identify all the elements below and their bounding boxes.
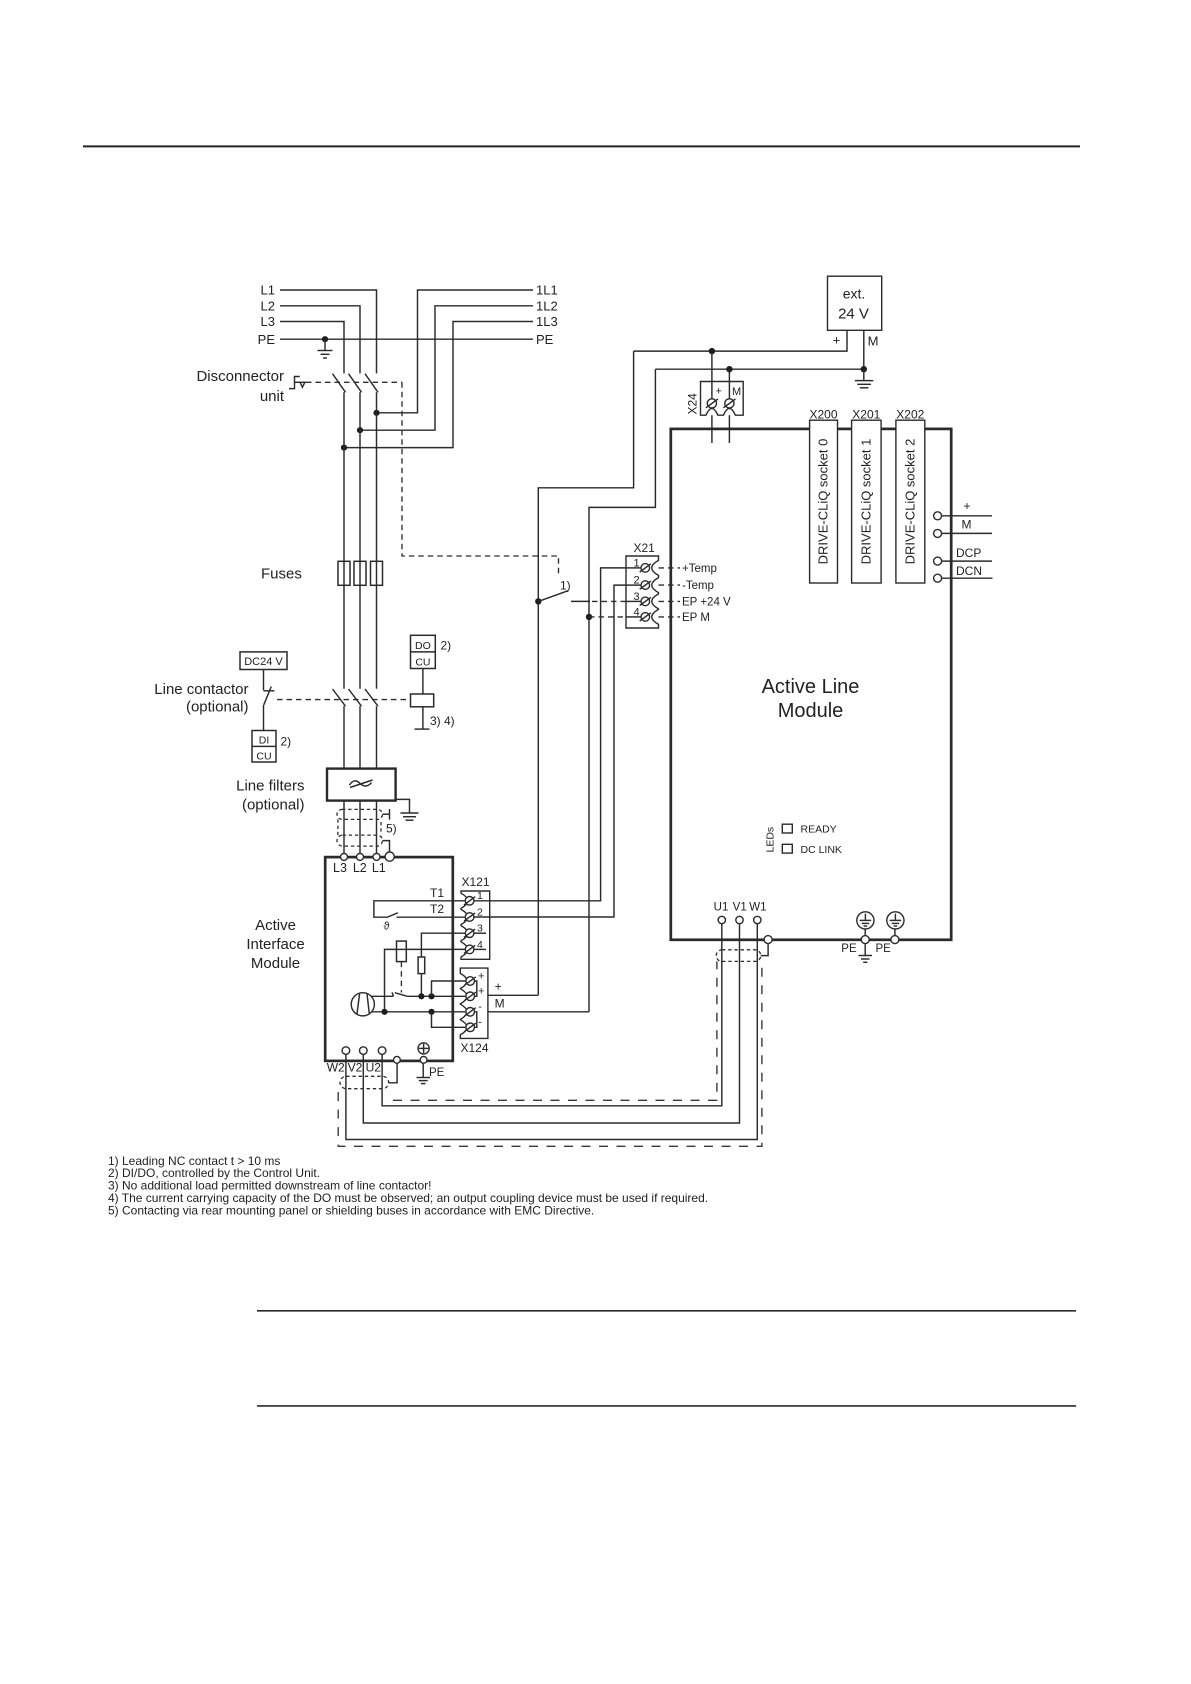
svg-text:T1: T1 — [430, 886, 444, 900]
connector X124 — [460, 968, 488, 1038]
terminal U2 — [378, 1047, 386, 1061]
X124 pin 4 — [465, 1017, 483, 1032]
wire filter to ground — [396, 799, 410, 812]
LED DC LINK — [782, 844, 842, 856]
contactor K1 pole L2 — [349, 689, 362, 706]
svg-text:4: 4 — [633, 606, 639, 618]
svg-text:Fuses: Fuses — [261, 565, 302, 582]
cable shield sleeve lower — [337, 835, 383, 846]
node ext24 M ground — [861, 366, 867, 372]
svg-text:ext.: ext. — [843, 286, 866, 302]
ground ALM PE — [859, 944, 873, 963]
svg-text:unit: unit — [260, 388, 285, 405]
svg-text:2): 2) — [281, 735, 292, 749]
wire L1 filter to module — [376, 801, 378, 854]
wire coil return — [422, 707, 424, 729]
wire +Temp (dashed) — [659, 567, 681, 569]
svg-text:EP +24 V: EP +24 V — [682, 596, 731, 608]
wire fan plus — [371, 995, 393, 997]
svg-text:U2: U2 — [366, 1061, 382, 1075]
wire L2 — [280, 306, 360, 374]
wire -Temp (dashed) — [659, 584, 681, 586]
node PE junction — [322, 336, 328, 342]
labels L3 L2 L1 — [333, 861, 386, 875]
svg-text:2: 2 — [633, 575, 639, 587]
svg-text:X200: X200 — [809, 407, 837, 421]
X121 pin1 stub — [474, 900, 490, 902]
svg-text:X121: X121 — [462, 875, 490, 889]
svg-text:DRIVE-CLiQ socket 0: DRIVE-CLiQ socket 0 — [816, 439, 831, 565]
wire L3 contactor to filter — [343, 706, 345, 768]
linkage disconnector (dashed) — [306, 381, 402, 383]
terminal W2 — [342, 1047, 350, 1061]
relay coil fan — [397, 941, 407, 962]
svg-text:(optional): (optional) — [242, 796, 305, 813]
X121 pin2 stub — [474, 916, 490, 918]
connector X21 — [626, 556, 659, 628]
X121 pin 2 — [464, 906, 483, 921]
fuse element lines — [344, 561, 377, 585]
terminal L2 top — [357, 853, 364, 860]
svg-text:+: + — [963, 499, 970, 513]
svg-text:+: + — [495, 979, 502, 993]
wire EPM to X21-4 (dashed) — [589, 616, 626, 618]
jumper X124 3-4 — [432, 1012, 467, 1028]
connector X24 — [701, 382, 744, 416]
svg-text:+: + — [478, 970, 484, 982]
module Active Interface Module box — [325, 857, 453, 1061]
svg-text:U1: U1 — [714, 902, 729, 914]
svg-text:3) 4): 3) 4) — [430, 714, 455, 728]
bottom rule 2 — [257, 1405, 1076, 1407]
box DC24V — [240, 652, 287, 670]
wire shield sleeve to AIM terminal — [389, 1063, 397, 1083]
socket X200 — [809, 407, 837, 583]
jumper X124 1-2 — [432, 981, 467, 996]
wire PE — [280, 338, 533, 340]
svg-text:L1: L1 — [261, 283, 275, 298]
linkage to switch 1) (dashed) — [402, 382, 559, 576]
svg-text:Disconnector: Disconnector — [196, 368, 284, 385]
node 1L1 junction — [373, 410, 379, 416]
X124 jumper bar 3-4 — [475, 1012, 477, 1028]
wire ext24 plus — [634, 330, 847, 351]
svg-text:READY: READY — [801, 824, 837, 836]
wire X124 plus external — [488, 994, 538, 996]
node X24 M tap — [726, 366, 732, 372]
wire contact to DI box — [263, 705, 265, 731]
node EP M tap — [586, 614, 592, 620]
contactor K1 pole L1 — [365, 689, 378, 706]
svg-text:X21: X21 — [634, 541, 656, 555]
shield boundary inner (dashed) — [393, 961, 717, 1100]
bottom rule 1 — [257, 1310, 1076, 1312]
X124 jumper bar 1-2 — [475, 981, 477, 996]
PE screw symbol — [418, 1043, 429, 1054]
svg-text:+: + — [478, 986, 484, 998]
svg-text:W2: W2 — [327, 1061, 345, 1075]
wire 1L1 — [377, 290, 534, 413]
svg-text:24 V: 24 V — [838, 305, 869, 322]
module Active Line Module box — [671, 429, 951, 940]
switch EP (1) — [535, 591, 568, 605]
terminal tick coil return — [415, 728, 430, 730]
svg-text:5) Contacting via rear mountin: 5) Contacting via rear mounting panel or… — [108, 1203, 594, 1217]
X121 pin 3 — [464, 923, 483, 938]
X124 pin 3 — [465, 1001, 483, 1016]
terminal W1 — [754, 916, 761, 938]
node fan feed — [418, 993, 424, 999]
node fan minus — [381, 1009, 387, 1015]
fuse F2 — [354, 561, 366, 585]
X121 pin3 stub — [474, 932, 486, 934]
fan contact blade — [392, 992, 407, 996]
ground line filter — [401, 813, 419, 820]
svg-text:PE: PE — [841, 943, 857, 955]
svg-text:-Temp: -Temp — [682, 580, 714, 592]
X24 stubs into module — [712, 415, 730, 443]
svg-text:X124: X124 — [461, 1041, 489, 1055]
wire shield to terminal — [383, 841, 390, 853]
X124 pin 1 — [465, 970, 485, 985]
svg-text:CU: CU — [256, 750, 271, 762]
svg-text:DI: DI — [259, 734, 270, 746]
wire X24 plus lead — [711, 351, 713, 381]
wire L1 contactor to filter — [376, 706, 378, 768]
X21 pin 4 — [633, 606, 650, 621]
svg-text:3: 3 — [633, 591, 639, 603]
coil wire through — [397, 948, 407, 950]
wire resistor to fan node — [420, 974, 422, 997]
svg-text:M: M — [868, 334, 879, 349]
wire M rail down — [589, 369, 655, 1012]
terminal V1 — [736, 916, 743, 938]
svg-text:M: M — [732, 386, 741, 398]
svg-text:L3: L3 — [261, 314, 275, 329]
svg-text:Module: Module — [251, 955, 300, 972]
switch Q1 pole L3 — [333, 374, 346, 393]
svg-text:X24: X24 — [686, 393, 700, 415]
wire EP +24 V (dashed) — [659, 600, 681, 602]
svg-text:1L3: 1L3 — [536, 314, 558, 329]
wire X121-4 through coil — [385, 949, 466, 1011]
terminal 24V plus right — [934, 499, 992, 520]
terminal L3 top — [341, 853, 348, 860]
fuse F1 — [338, 561, 350, 585]
terminal 24V M right — [934, 518, 992, 538]
X121 pin 4 — [464, 939, 483, 954]
contactor K1 pole L3 — [333, 689, 346, 706]
wire fan minus — [371, 1011, 466, 1013]
svg-text:L2: L2 — [261, 298, 275, 313]
svg-text:Active Line: Active Line — [762, 676, 860, 698]
svg-text:1L2: 1L2 — [536, 298, 558, 313]
terminal PE bottom — [420, 1056, 427, 1063]
svg-text:X201: X201 — [852, 407, 880, 421]
svg-text:V1: V1 — [733, 902, 747, 914]
node X124 plus jumper — [428, 993, 434, 999]
terminal L1 top — [373, 853, 380, 860]
wire 1L2 — [360, 306, 533, 430]
X21 wire pin2 internal — [626, 584, 641, 586]
svg-text:1: 1 — [633, 557, 639, 569]
terminal PE2 edge — [891, 936, 899, 944]
wire V2 to V1 — [363, 939, 739, 1124]
socket X202 — [896, 407, 925, 583]
svg-text:PE: PE — [258, 332, 276, 347]
wire 1L3 — [344, 322, 533, 448]
svg-text:Interface: Interface — [246, 936, 304, 953]
svg-text:-: - — [478, 1017, 482, 1029]
svg-text:Line filters: Line filters — [236, 778, 304, 795]
box ext 24 V — [828, 276, 882, 330]
node X124 minus jumper — [428, 1009, 434, 1015]
wire W2 to W1 — [346, 939, 757, 1140]
svg-text:DO: DO — [415, 640, 431, 652]
stub PE1 — [864, 929, 866, 936]
svg-text:Module: Module — [778, 700, 844, 722]
X24 pin plus — [706, 386, 722, 408]
terminal U1 — [718, 916, 725, 938]
wire DO to coil — [422, 669, 424, 695]
svg-text:X202: X202 — [896, 407, 924, 421]
svg-text:PE: PE — [876, 943, 892, 955]
svg-text:CU: CU — [415, 656, 430, 668]
wire L2 to fuses — [359, 392, 361, 688]
thermal contact blade — [387, 913, 398, 918]
fan motor M1 — [351, 993, 374, 1016]
terminal shield ALM edge — [764, 936, 772, 944]
terminal DCP — [934, 546, 992, 565]
coil K1 — [411, 694, 434, 707]
wire EP24 to X21-3 (dashed) — [571, 600, 590, 602]
shield boundary outer (dashed) — [338, 961, 762, 1146]
wire plus rail down — [538, 351, 633, 995]
svg-text:DRIVE-CLiQ socket 1: DRIVE-CLiQ socket 1 — [858, 439, 873, 565]
X21 wire pin1 internal — [626, 567, 641, 569]
X24 pin M — [723, 386, 741, 408]
switch Q1 pole L1 — [365, 374, 378, 393]
labels W2 V2 U2 — [327, 1061, 382, 1075]
wire U2 to U1 — [382, 939, 722, 1106]
wire X121-2 to X21-2 — [490, 585, 626, 917]
socket X201 — [852, 407, 882, 583]
X21 pin 3 — [633, 591, 650, 606]
X121 pin4 stub — [474, 948, 486, 950]
labels U1 V1 W1 — [714, 902, 767, 914]
LED READY — [782, 824, 836, 836]
svg-text:(optional): (optional) — [186, 699, 249, 716]
ground PE — [318, 339, 333, 358]
wire X124 M external — [488, 1011, 589, 1013]
shield link dashes right — [380, 822, 382, 833]
wire L3 to fuses — [343, 392, 345, 688]
terminal V2 — [360, 1047, 368, 1061]
svg-text:LEDs: LEDs — [765, 827, 777, 853]
terminal PE1 edge — [861, 936, 869, 944]
header rule — [83, 145, 1080, 147]
connector X121 — [461, 891, 490, 959]
wire fan contact to X124 — [407, 995, 466, 997]
terminal shield top — [385, 852, 394, 861]
wire X121-1 to X21-1 — [490, 568, 626, 901]
terminal DCN — [934, 564, 993, 582]
svg-text:DCP: DCP — [956, 546, 981, 560]
svg-text:PE: PE — [429, 1067, 445, 1079]
earth symbol PE1 — [857, 912, 874, 929]
wire L1 to fuses — [376, 392, 378, 688]
svg-text:L1: L1 — [372, 861, 386, 875]
shield link dashes left — [337, 819, 339, 835]
actuator symbol Fv — [289, 377, 306, 389]
svg-text:L2: L2 — [353, 861, 367, 875]
X21 wire pin4 internal — [626, 616, 641, 618]
svg-text:M: M — [495, 997, 505, 1011]
svg-text:+: + — [833, 333, 841, 348]
svg-text:1L1: 1L1 — [536, 283, 558, 298]
ground AIM PE — [417, 1063, 431, 1083]
ground ext24 M — [855, 369, 873, 388]
svg-text:M: M — [962, 518, 972, 532]
svg-text:Active: Active — [255, 917, 296, 934]
X21 wire pin3 internal — [626, 600, 641, 602]
shield bus tick — [383, 809, 390, 820]
wire ext24 M — [655, 330, 863, 369]
wire shield sleeve to ALM terminal — [761, 944, 768, 956]
svg-text:+: + — [715, 386, 721, 398]
svg-text:W1: W1 — [749, 902, 766, 914]
box DO/CU — [411, 635, 436, 668]
filter symbol — [350, 780, 373, 788]
svg-text:DC LINK: DC LINK — [801, 844, 842, 856]
box DI/CU — [252, 731, 276, 763]
node X24 plus tap — [709, 348, 715, 354]
svg-text:+Temp: +Temp — [682, 563, 717, 575]
svg-text:V2: V2 — [348, 1061, 363, 1075]
cable shield sleeve ALM input — [716, 950, 761, 962]
wire DC24V to DI contact — [263, 670, 265, 691]
earth symbol PE2 — [887, 912, 904, 929]
wire EP M (dashed) — [659, 616, 681, 618]
svg-text:Line contactor: Line contactor — [154, 681, 248, 698]
svg-text:T2: T2 — [430, 902, 444, 916]
svg-text:ϑ: ϑ — [384, 921, 390, 933]
svg-text:-: - — [478, 1001, 482, 1013]
contact DI (auxiliary) — [264, 687, 275, 705]
svg-text:DRIVE-CLiQ socket 2: DRIVE-CLiQ socket 2 — [902, 439, 917, 565]
box line filter — [327, 769, 396, 801]
switch Q1 pole L2 — [349, 374, 362, 393]
fuse F3 — [371, 561, 383, 585]
cable shield sleeve AIM output — [340, 1076, 389, 1088]
resistor fan — [418, 957, 425, 974]
svg-text:5): 5) — [386, 821, 397, 835]
wire X24 M lead — [728, 369, 730, 381]
node 1L2 junction — [357, 427, 363, 433]
stub PE2 — [894, 929, 896, 936]
terminal shield bottom — [394, 1056, 401, 1063]
wire L1 — [280, 290, 377, 373]
svg-text:2): 2) — [441, 638, 452, 652]
svg-text:PE: PE — [536, 332, 554, 347]
wire T2 — [397, 916, 466, 918]
linkage contactor (dashed) — [277, 699, 411, 701]
wire L3 — [280, 322, 344, 374]
svg-text:L3: L3 — [333, 861, 347, 875]
svg-text:DC24 V: DC24 V — [244, 656, 283, 668]
X21 pin 1 — [633, 557, 650, 572]
wire L3 filter to module — [343, 801, 345, 854]
wire X121-3 fan feed — [421, 933, 465, 957]
wire L2 filter to module — [359, 801, 361, 854]
wire T1 — [374, 901, 466, 917]
X21 pin 2 — [633, 575, 650, 590]
X121 pin 1 — [464, 890, 483, 905]
node 1L3 junction — [341, 445, 347, 451]
svg-text:1): 1) — [560, 579, 571, 593]
cable shield sleeve upper — [337, 809, 383, 819]
svg-text:DCN: DCN — [956, 564, 982, 578]
wire L2 contactor to filter — [359, 706, 361, 768]
svg-text:EP M: EP M — [682, 612, 710, 624]
footnotes — [108, 1154, 708, 1218]
X124 pin 2 — [465, 986, 485, 1001]
X24 internal leads — [712, 382, 730, 399]
linkage coil to fan contact (dashed) — [400, 962, 402, 993]
